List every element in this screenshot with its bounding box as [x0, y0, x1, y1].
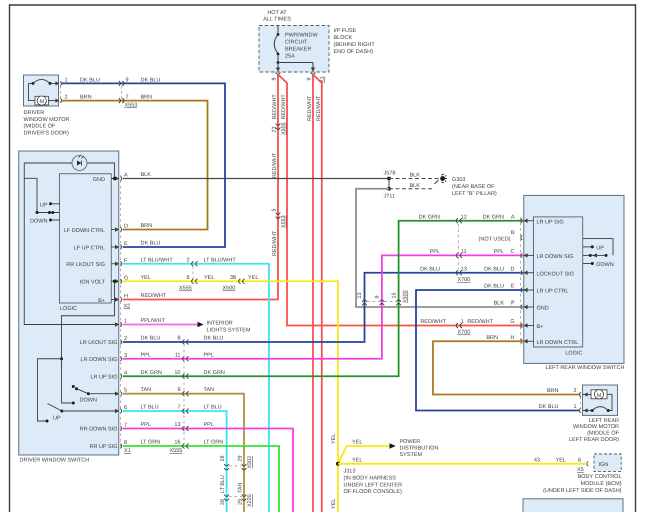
svg-text:G303: G303 — [452, 177, 465, 183]
svg-text:D: D — [124, 224, 128, 230]
svg-text:YEL: YEL — [556, 457, 566, 463]
svg-text:1: 1 — [573, 404, 576, 410]
wire YEL row G: IGN VOLT to J313 and beyond — [123, 281, 338, 512]
svg-text:LT BLU/WHT: LT BLU/WHT — [141, 257, 174, 263]
svg-text:END OF DASH): END OF DASH) — [334, 49, 374, 55]
svg-text:RED/WHT: RED/WHT — [316, 95, 322, 121]
svg-text:(IN BODY HARNESS: (IN BODY HARNESS — [344, 476, 397, 482]
svg-text:BLK: BLK — [410, 183, 421, 189]
svg-text:X505: X505 — [281, 122, 287, 135]
labels RED/WHT vertical — [272, 94, 322, 256]
svg-text:PPL: PPL — [494, 249, 504, 255]
logic box U2 — [534, 217, 583, 347]
svg-text:BRN: BRN — [141, 223, 153, 229]
svg-text:LR UP CTRL: LR UP CTRL — [537, 289, 569, 295]
wire RED/WHT line1: fuse pin8 to driver switch B+ pin H — [123, 75, 278, 300]
svg-text:DOWN: DOWN — [30, 219, 47, 225]
svg-text:PWR/WNDW: PWR/WNDW — [285, 33, 318, 39]
svg-text:LOGIC: LOGIC — [565, 351, 582, 357]
switch S3 up (to pin 6) — [48, 404, 119, 422]
wire BRN: motor pin2 to LF DOWN CTRL pin D — [62, 101, 208, 230]
svg-text:A: A — [511, 214, 515, 220]
svg-text:J313: J313 — [344, 469, 356, 475]
svg-text:BRN: BRN — [80, 95, 92, 101]
logic pin stubs with arrows — [111, 179, 116, 300]
svg-text:25A: 25A — [285, 54, 295, 60]
svg-text:E: E — [124, 241, 128, 247]
logic pin stubs with left arrows — [527, 221, 534, 342]
svg-text:PPL: PPL — [141, 422, 151, 428]
svg-text:C: C — [511, 249, 515, 255]
svg-text:RED/WHT: RED/WHT — [420, 319, 446, 325]
wire LT BLU row 6 down off page — [123, 411, 227, 512]
svg-text:28: 28 — [220, 456, 226, 462]
svg-text:11: 11 — [175, 352, 181, 358]
svg-text:BODY CONTROL: BODY CONTROL — [578, 474, 622, 480]
svg-text:DK GRN: DK GRN — [483, 214, 504, 220]
svg-text:12: 12 — [461, 214, 467, 220]
svg-text:B: B — [511, 230, 515, 236]
svg-text:DK GRN: DK GRN — [419, 214, 440, 220]
wire BRN: LR DOWN CTRL pin H to motor pin 2 — [433, 341, 579, 394]
svg-text:LOCKOUT SIG: LOCKOUT SIG — [537, 271, 575, 277]
switch S2 down (to pin 5) — [72, 385, 119, 404]
svg-text:YEL: YEL — [331, 499, 337, 509]
connector X700 dashed link — [457, 224, 459, 270]
circuit breaker PWR/WNDW 25A — [274, 26, 318, 72]
pin edge arcs driver switch — [120, 176, 121, 448]
svg-text:X555: X555 — [170, 448, 183, 454]
connector X553 on motor wires — [119, 81, 138, 109]
svg-text:LEFT "B" PILLAR): LEFT "B" PILLAR) — [452, 191, 497, 197]
wire PPL/WHT row 1 to interior lights — [123, 324, 198, 326]
BCM IGN input — [534, 454, 622, 494]
connector X553 pin 5 on line1 — [272, 209, 287, 229]
node IGN VOLT / B+ junctions and internal feed wire — [113, 280, 116, 283]
svg-text:29: 29 — [238, 456, 244, 462]
svg-text:UP: UP — [40, 202, 48, 208]
node J578 — [387, 177, 391, 181]
wire BLK dashed from J711 to ground — [389, 188, 432, 190]
svg-text:DK GRN: DK GRN — [141, 370, 162, 376]
wire LT BLU/WHT row F: RR LKOUT SIG down off page — [123, 264, 269, 512]
svg-text:43: 43 — [534, 457, 540, 463]
left rear window switch box — [524, 195, 624, 363]
svg-text:29: 29 — [238, 499, 244, 505]
svg-text:RED/WHT: RED/WHT — [467, 319, 493, 325]
switch S4 up/down (left rear) — [583, 239, 614, 268]
svg-text:OF FLOOR CONSOLE): OF FLOOR CONSOLE) — [344, 489, 403, 495]
bottom right box (partial) — [523, 499, 623, 512]
svg-text:BLK: BLK — [410, 173, 421, 179]
svg-text:H: H — [124, 294, 128, 300]
wire LT GRN row 8 down off page — [123, 446, 279, 512]
svg-text:(BEHIND RIGHT: (BEHIND RIGHT — [334, 42, 376, 48]
svg-text:1: 1 — [65, 77, 68, 83]
labels motor wires — [65, 77, 161, 100]
svg-text:WINDOW MOTOR: WINDOW MOTOR — [573, 424, 619, 430]
row D labels + connector X700 pin 13 — [420, 266, 504, 283]
svg-text:GND: GND — [93, 177, 105, 183]
svg-text:9: 9 — [177, 387, 180, 393]
interior illumination wire loop — [24, 163, 119, 325]
svg-text:X553: X553 — [125, 103, 138, 109]
motor pin arcs and dashed edge — [60, 81, 61, 103]
svg-text:9: 9 — [375, 296, 381, 299]
svg-text:PPL: PPL — [204, 352, 214, 358]
svg-text:(MIDDLE OF: (MIDDLE OF — [24, 124, 56, 130]
wire DK BLU row 2: LR LKOUT SIG to left rear switch pin D — [123, 273, 524, 342]
svg-text:YEL: YEL — [248, 275, 258, 281]
svg-text:GND: GND — [537, 306, 549, 312]
svg-text:UP: UP — [53, 416, 61, 422]
svg-text:UP: UP — [596, 245, 604, 251]
svg-text:LT BLU: LT BLU — [220, 475, 226, 493]
svg-text:13: 13 — [174, 422, 180, 428]
svg-text:PPL: PPL — [141, 352, 151, 358]
svg-text:H: H — [511, 335, 515, 341]
svg-text:LT BLU: LT BLU — [141, 405, 159, 411]
svg-text:RED/WHT: RED/WHT — [272, 152, 278, 178]
svg-text:UNDER LEFT CENTER: UNDER LEFT CENTER — [344, 482, 403, 488]
pin letters driver switch — [124, 173, 128, 447]
wire PPL row 3: LR DOWN SIG to left rear switch pin C — [123, 255, 524, 358]
svg-text:X500: X500 — [223, 286, 236, 292]
svg-text:DK BLU: DK BLU — [141, 336, 161, 342]
pin edge arcs left rear switch — [521, 218, 522, 343]
svg-text:TAN: TAN — [238, 483, 244, 493]
switch S1 up/down (top) — [24, 178, 59, 224]
svg-text:YEL: YEL — [352, 457, 362, 463]
svg-text:PPL: PPL — [204, 422, 214, 428]
svg-text:(NEAR BASE OF: (NEAR BASE OF — [452, 184, 495, 190]
svg-text:X502: X502 — [247, 456, 253, 469]
svg-text:E: E — [511, 284, 515, 290]
svg-text:LR DOWN SIG: LR DOWN SIG — [81, 357, 118, 363]
driver window switch box — [19, 151, 119, 455]
svg-text:10: 10 — [174, 370, 180, 376]
svg-text:DISTRIBUTION: DISTRIBUTION — [400, 446, 439, 452]
wire RED/WHT line3: fuse pin9 down off page — [312, 75, 314, 512]
svg-text:DK BLU: DK BLU — [484, 266, 504, 272]
svg-text:LEFT REAR WINDOW SWITCH: LEFT REAR WINDOW SWITCH — [545, 365, 624, 371]
svg-text:SYSTEM: SYSTEM — [400, 452, 423, 458]
row A labels + connector X700 pin 12 — [419, 214, 504, 223]
svg-text:INTERIOR: INTERIOR — [207, 321, 233, 327]
svg-text:J711: J711 — [384, 194, 396, 200]
wire DK BLU: LR UP CTRL pin E to motor pin 1 — [416, 290, 579, 411]
svg-text:RED/WHT: RED/WHT — [272, 230, 278, 256]
svg-text:LOGIC: LOGIC — [60, 306, 77, 312]
svg-text:13: 13 — [357, 293, 363, 299]
svg-text:DK BLU: DK BLU — [539, 404, 559, 410]
svg-text:DRIVER'S DOOR): DRIVER'S DOOR) — [24, 130, 70, 136]
svg-text:DRIVER: DRIVER — [24, 110, 45, 116]
svg-text:LT GRN: LT GRN — [141, 440, 161, 446]
wire TAN row 5 down off page — [123, 394, 244, 512]
svg-text:RED/WHT: RED/WHT — [141, 293, 167, 299]
svg-text:LF UP CTRL: LF UP CTRL — [74, 245, 105, 251]
svg-text:LIGHTS SYSTEM: LIGHTS SYSTEM — [207, 328, 251, 334]
svg-text:8: 8 — [272, 78, 278, 81]
svg-text:X2: X2 — [124, 304, 131, 310]
svg-text:DOWN: DOWN — [80, 398, 97, 404]
fuse terminal 8 — [272, 73, 281, 81]
svg-text:13: 13 — [461, 266, 467, 272]
svg-text:28: 28 — [220, 499, 226, 505]
svg-text:IGN VOLT: IGN VOLT — [80, 280, 106, 286]
svg-text:LEFT REAR DOOR): LEFT REAR DOOR) — [569, 437, 619, 443]
svg-text:16: 16 — [174, 440, 180, 446]
svg-text:2: 2 — [65, 95, 68, 101]
fuse terminal 9, connector X1 — [307, 73, 326, 84]
svg-text:LT BLU: LT BLU — [204, 405, 222, 411]
connector X500 on vertical runs — [357, 290, 408, 305]
svg-text:YEL: YEL — [331, 434, 337, 444]
svg-text:6: 6 — [578, 457, 581, 463]
svg-text:6: 6 — [186, 275, 189, 281]
svg-text:LT BLU/WHT: LT BLU/WHT — [204, 257, 237, 263]
svg-text:DK GRN: DK GRN — [204, 370, 225, 376]
logic pin internal labels — [64, 177, 118, 450]
svg-text:BLOCK: BLOCK — [334, 35, 353, 41]
svg-text:YEL: YEL — [352, 440, 362, 446]
svg-text:MODULE (BCM): MODULE (BCM) — [581, 481, 622, 487]
svg-text:TAN: TAN — [141, 387, 152, 393]
svg-text:D: D — [511, 266, 515, 272]
svg-text:7: 7 — [177, 405, 180, 411]
LED D1 — [72, 155, 87, 171]
svg-text:PPL: PPL — [430, 249, 440, 255]
svg-text:X700: X700 — [458, 277, 471, 283]
logic internal labels — [537, 219, 579, 346]
pin letters left rear switch — [510, 214, 515, 341]
wire LR DOWN SIG internal — [38, 359, 63, 421]
svg-text:X1: X1 — [124, 448, 131, 454]
svg-text:DK BLU: DK BLU — [420, 266, 440, 272]
svg-text:5: 5 — [272, 209, 278, 212]
svg-text:LF DOWN CTRL: LF DOWN CTRL — [64, 228, 105, 234]
svg-text:YEL: YEL — [204, 275, 214, 281]
svg-text:(UNDER LEFT SIDE OF DASH): (UNDER LEFT SIDE OF DASH) — [543, 488, 622, 494]
wire RED/WHT line2: fuse pin8 to left rear switch B+ pin G — [278, 75, 524, 326]
svg-text:DK BLU: DK BLU — [484, 284, 504, 290]
connectors X502/X220 on LT BLU and TAN runs — [220, 456, 253, 508]
label left rear window motor — [569, 418, 620, 443]
svg-text:X553: X553 — [281, 215, 287, 228]
svg-text:LR UP SIG: LR UP SIG — [537, 219, 564, 225]
svg-text:M: M — [597, 393, 602, 399]
connector X555 dashed link — [183, 344, 185, 444]
svg-text:RR LKOUT SIG: RR LKOUT SIG — [66, 262, 105, 268]
wire BLK dashed to ground — [389, 178, 439, 180]
svg-text:RR UP SIG: RR UP SIG — [89, 444, 117, 450]
svg-text:RED/WHT: RED/WHT — [281, 94, 287, 120]
svg-text:ALL TIMES: ALL TIMES — [263, 17, 291, 23]
svg-text:M: M — [40, 99, 45, 105]
svg-text:BLK: BLK — [494, 301, 505, 307]
svg-text:11: 11 — [461, 249, 467, 255]
node GND junction — [113, 177, 116, 180]
svg-text:G: G — [510, 319, 514, 325]
svg-text:X555: X555 — [179, 286, 192, 292]
svg-text:LR LKOUT SIG: LR LKOUT SIG — [80, 340, 118, 346]
svg-text:POWER: POWER — [400, 439, 421, 445]
wire BLK gray path J711 to left rear switch GND pin F — [356, 189, 524, 307]
connector X505 pin 23 on line1 — [272, 122, 287, 135]
wire DK GRN row 4: LR UP SIG to left rear switch pin A — [123, 221, 524, 377]
svg-text:PPL/WHT: PPL/WHT — [141, 318, 166, 324]
svg-text:15: 15 — [391, 293, 397, 299]
label I/P FUSE BLOCK — [334, 28, 376, 55]
svg-text:LEFT REAR: LEFT REAR — [589, 418, 619, 424]
svg-text:RED/WHT: RED/WHT — [272, 94, 278, 120]
svg-text:IGN: IGN — [599, 462, 609, 468]
wire BLK row A to J578 — [123, 178, 389, 180]
svg-text:LR DOWN CTRL: LR DOWN CTRL — [537, 340, 579, 346]
svg-text:2: 2 — [186, 257, 189, 263]
node J711 — [388, 179, 390, 189]
svg-text:DK BLU: DK BLU — [80, 77, 100, 83]
svg-text:DK BLU: DK BLU — [141, 77, 161, 83]
svg-text:(MIDDLE OF: (MIDDLE OF — [587, 431, 619, 437]
svg-text:BLK: BLK — [141, 172, 152, 178]
svg-text:HOT AT: HOT AT — [267, 10, 287, 16]
label HOT AT ALL TIMES — [263, 10, 291, 23]
row G labels + connector X700 pin 1 — [420, 319, 493, 336]
svg-text:YEL: YEL — [141, 275, 151, 281]
left rear window motor M2 — [579, 385, 617, 415]
svg-text:RR DOWN SIG: RR DOWN SIG — [80, 427, 118, 433]
svg-text:DK BLU: DK BLU — [141, 241, 161, 247]
svg-text:B+: B+ — [98, 298, 105, 304]
svg-text:DOWN: DOWN — [596, 262, 613, 268]
label driver window motor — [24, 110, 70, 136]
svg-text:DK BLU: DK BLU — [204, 336, 224, 342]
svg-text:7: 7 — [126, 95, 129, 101]
svg-text:RED/WHT: RED/WHT — [307, 95, 313, 121]
I/P fuse block (dashed box) — [259, 26, 329, 73]
svg-text:DRIVER WINDOW SWITCH: DRIVER WINDOW SWITCH — [20, 458, 90, 464]
svg-text:WINDOW MOTOR: WINDOW MOTOR — [24, 117, 70, 123]
driver window motor — [24, 75, 60, 106]
svg-text:X500: X500 — [403, 290, 409, 303]
svg-text:X5: X5 — [577, 467, 584, 473]
svg-text:9: 9 — [126, 77, 129, 83]
wire RED/WHT line4: fuse pin9 down off page — [313, 75, 322, 512]
svg-text:CIRCUIT: CIRCUIT — [285, 40, 308, 46]
svg-text:A: A — [124, 173, 128, 179]
svg-text:BRN: BRN — [547, 388, 559, 394]
svg-text:J578: J578 — [384, 171, 396, 177]
svg-text:LT GRN: LT GRN — [204, 440, 224, 446]
svg-text:TAN: TAN — [204, 387, 215, 393]
svg-text:LR UP SIG: LR UP SIG — [90, 374, 117, 380]
svg-text:(NOT USED): (NOT USED) — [479, 237, 511, 243]
svg-text:38: 38 — [230, 275, 236, 281]
ground G303 — [435, 174, 497, 197]
svg-text:B+: B+ — [537, 324, 544, 330]
svg-text:X700: X700 — [458, 330, 471, 336]
row C labels + connector X700 pin 11 — [430, 249, 504, 258]
svg-text:LR DOWN SIG: LR DOWN SIG — [537, 254, 574, 260]
svg-text:8: 8 — [177, 336, 180, 342]
svg-text:9: 9 — [307, 78, 313, 81]
node J313 and yellow distribution — [331, 434, 586, 509]
wire PPL row 7 down off page — [123, 429, 293, 512]
svg-text:23: 23 — [272, 127, 278, 133]
logic box U1 — [60, 174, 112, 303]
dashed connector edge line — [120, 175, 122, 449]
svg-text:I/P FUSE: I/P FUSE — [334, 28, 357, 34]
svg-text:BRN: BRN — [141, 95, 153, 101]
svg-text:2: 2 — [573, 388, 576, 394]
svg-text:X220: X220 — [247, 494, 253, 507]
wire DK BLU: motor pin1 to LF UP CTRL pin E — [62, 83, 225, 247]
svg-text:BRN: BRN — [486, 335, 498, 341]
svg-text:BREAKER: BREAKER — [285, 47, 311, 53]
